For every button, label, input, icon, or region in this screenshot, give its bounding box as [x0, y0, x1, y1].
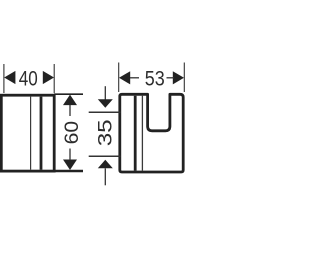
front view inner thick edge line — [134, 96, 137, 171]
svg-text:60: 60 — [61, 121, 83, 145]
dim 60 top arrow — [63, 95, 77, 106]
dim 40 left arrow — [4, 71, 15, 84]
dim 53 right extension line — [183, 63, 185, 93]
dim 53 left arrow — [119, 71, 130, 84]
dim 60 top extension line — [54, 93, 83, 95]
dim 53 left stub line — [130, 77, 139, 79]
dim 60 bottom arrow — [63, 160, 77, 171]
side view outer body — [1, 95, 54, 171]
dim 35 top reference line — [89, 111, 121, 113]
side view inner thin edge line — [30, 97, 32, 170]
dim 40 left extension line — [3, 64, 5, 93]
svg-text:40: 40 — [19, 67, 38, 90]
dim 35 bottom stub line — [104, 168, 106, 185]
front view inner thin edge line — [141, 96, 143, 171]
dim 35 top stub line — [104, 86, 106, 99]
dim 35 bottom reference line — [89, 155, 121, 157]
dim 40 right extension line — [53, 64, 55, 93]
dim 60 top stub line — [69, 105, 71, 116]
dim 53 right stub line — [167, 77, 175, 79]
dim 53 left extension line — [118, 63, 120, 93]
side view inner thick edge line — [40, 97, 43, 170]
dim 40 right arrow — [43, 71, 54, 84]
dim 53 right arrow — [173, 71, 184, 84]
front view outer body with open-top notch — [120, 94, 183, 172]
dim 35 bottom arrow — [98, 160, 113, 169]
svg-text:35: 35 — [94, 119, 116, 146]
dim 35 top arrow — [98, 99, 113, 108]
dim 60 bottom stub line — [69, 149, 71, 161]
dim 60 bottom extension line — [54, 170, 83, 172]
svg-text:53: 53 — [145, 68, 165, 91]
